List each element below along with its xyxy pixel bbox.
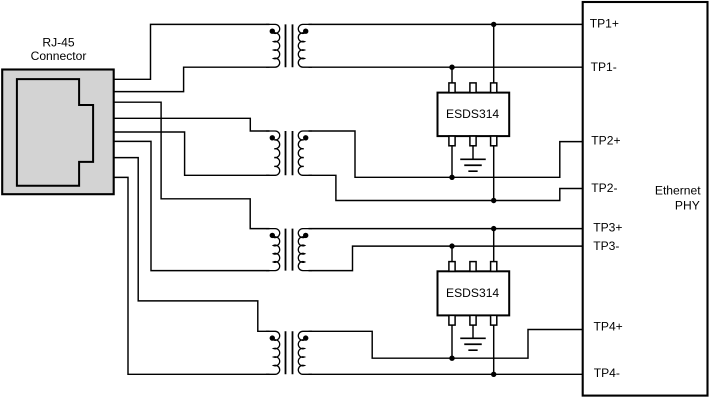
svg-text:TP3+: TP3+ (593, 220, 622, 234)
wire net TP4- : T4 secondary bottom to PHY (309, 373, 583, 375)
U1 body (438, 93, 510, 137)
wire RJ45 pin1 to T1 primary top (112, 24, 270, 79)
wire RJ45 pin5 to T2 primary bottom (112, 132, 270, 175)
svg-text:TP3-: TP3- (593, 239, 619, 253)
U1 bottom pin 5 (470, 136, 476, 146)
wire U1 pin4 to net TP2- (493, 144, 495, 201)
T4 secondary winding (298, 331, 312, 374)
junction net TP2- (491, 198, 496, 203)
T2 primary winding (266, 131, 280, 175)
wire U1 pin3 to net TP1+ (493, 24, 495, 85)
T3 core (286, 229, 293, 271)
U2 bottom pin 5 (470, 315, 476, 325)
wire net TP1- : T1 secondary bottom to PHY (309, 66, 583, 68)
svg-text:RJ-45: RJ-45 (42, 36, 75, 50)
svg-text:TP2+: TP2+ (591, 133, 620, 147)
U1 top pin 3 (491, 83, 497, 93)
T3 primary polarity dot (270, 233, 275, 238)
U2 top pin 3 (491, 262, 497, 272)
J1 jack opening outline (17, 79, 93, 186)
RJ-45 connector J1 (2, 70, 114, 195)
junction net TP4+ (449, 356, 454, 361)
wire RJ45 pin4 to T2 primary top (112, 118, 270, 131)
T4 primary polarity dot (270, 335, 275, 340)
T3 primary winding (266, 229, 280, 271)
wire net TP3+ : T3 secondary top to PHY (309, 228, 583, 230)
label RJ-45 Connector (31, 36, 87, 63)
junction net TP3+ (491, 226, 496, 231)
U1 top pin 2 (470, 83, 476, 93)
transformer T3 (266, 229, 312, 271)
U2 bottom pin 6 (449, 315, 455, 325)
U1 bottom pin 4 (491, 136, 497, 146)
transformer T1 (266, 24, 312, 67)
T4 primary winding (266, 331, 280, 374)
T1 secondary winding (298, 24, 312, 67)
T4 secondary polarity dot (303, 335, 308, 340)
svg-text:ESDS314: ESDS314 (446, 286, 499, 300)
wire U2 pin3 to net TP3+ (493, 229, 495, 263)
ground symbol GND2 (460, 325, 486, 350)
junction net TP4- (491, 372, 496, 377)
svg-text:TP2-: TP2- (591, 181, 617, 195)
T1 primary polarity dot (270, 29, 275, 34)
T1 primary winding (266, 24, 280, 67)
T2 secondary winding (298, 131, 312, 175)
U2 bottom pin 4 (491, 315, 497, 325)
wire RJ45 pin3 to T3 primary top (112, 102, 270, 228)
wire U1 pin1 to net TP1- (451, 67, 453, 85)
T2 secondary polarity dot (303, 135, 308, 140)
svg-text:TP1+: TP1+ (590, 16, 619, 30)
wire U2 pin6 to net TP4+ (451, 323, 453, 358)
wire U2 pin1 to net TP3- (451, 246, 453, 263)
ground symbol GND1 (460, 146, 486, 171)
wire RJ45 pin8 to T4 primary bottom (112, 177, 270, 374)
ESD protection diode array U2 ESDS314 (438, 262, 510, 326)
T1 secondary polarity dot (303, 29, 308, 34)
T3 secondary polarity dot (303, 233, 308, 238)
svg-text:Ethernet: Ethernet (655, 183, 701, 197)
wire net TP2- : T2 secondary bottom to PHY (309, 175, 583, 200)
wire RJ45 pin2 to T1 primary bottom (112, 67, 270, 91)
svg-text:ESDS314: ESDS314 (446, 107, 499, 121)
T1 core (286, 24, 293, 67)
ESD protection diode array U1 ESDS314 (438, 83, 510, 146)
svg-text:PHY: PHY (675, 198, 700, 212)
svg-text:TP4-: TP4- (594, 366, 620, 380)
U2 top pin 1 (449, 262, 455, 272)
wire RJ45 pin6 to T3 primary bottom (112, 141, 270, 270)
wire net TP4+ : T4 secondary top to PHY (309, 330, 583, 359)
U2 top pin 2 (470, 262, 476, 272)
wire net TP2+ : T2 secondary top to PHY (309, 131, 583, 177)
U1 top pin 1 (449, 83, 455, 93)
svg-text:Connector: Connector (31, 49, 87, 63)
T2 core (286, 131, 293, 175)
T2 primary polarity dot (270, 135, 275, 140)
transformer T4 (266, 331, 312, 374)
svg-text:TP1-: TP1- (591, 60, 617, 74)
T3 secondary winding (298, 229, 312, 271)
U3 name label Ethernet PHY (655, 183, 701, 212)
junction net TP3- (449, 243, 454, 248)
svg-text:TP4+: TP4+ (594, 320, 623, 334)
U2 body (438, 271, 510, 315)
wire RJ45 pin7 to T4 primary top (112, 158, 270, 332)
transformer T2 (266, 131, 312, 175)
U1 bottom pin 6 (449, 136, 455, 146)
wire U2 pin4 to net TP4- (493, 323, 495, 374)
wire net TP3- : T3 secondary bottom to PHY (309, 246, 583, 271)
Ethernet PHY U3 (583, 2, 708, 396)
junction net TP2+ (449, 175, 454, 180)
T4 core (286, 331, 293, 374)
wire U1 pin6 to net TP2+ (451, 144, 453, 177)
wire net TP1+ : T1 secondary top to PHY (309, 23, 583, 25)
junction net TP1+ (491, 22, 496, 27)
junction net TP1- (449, 65, 454, 70)
